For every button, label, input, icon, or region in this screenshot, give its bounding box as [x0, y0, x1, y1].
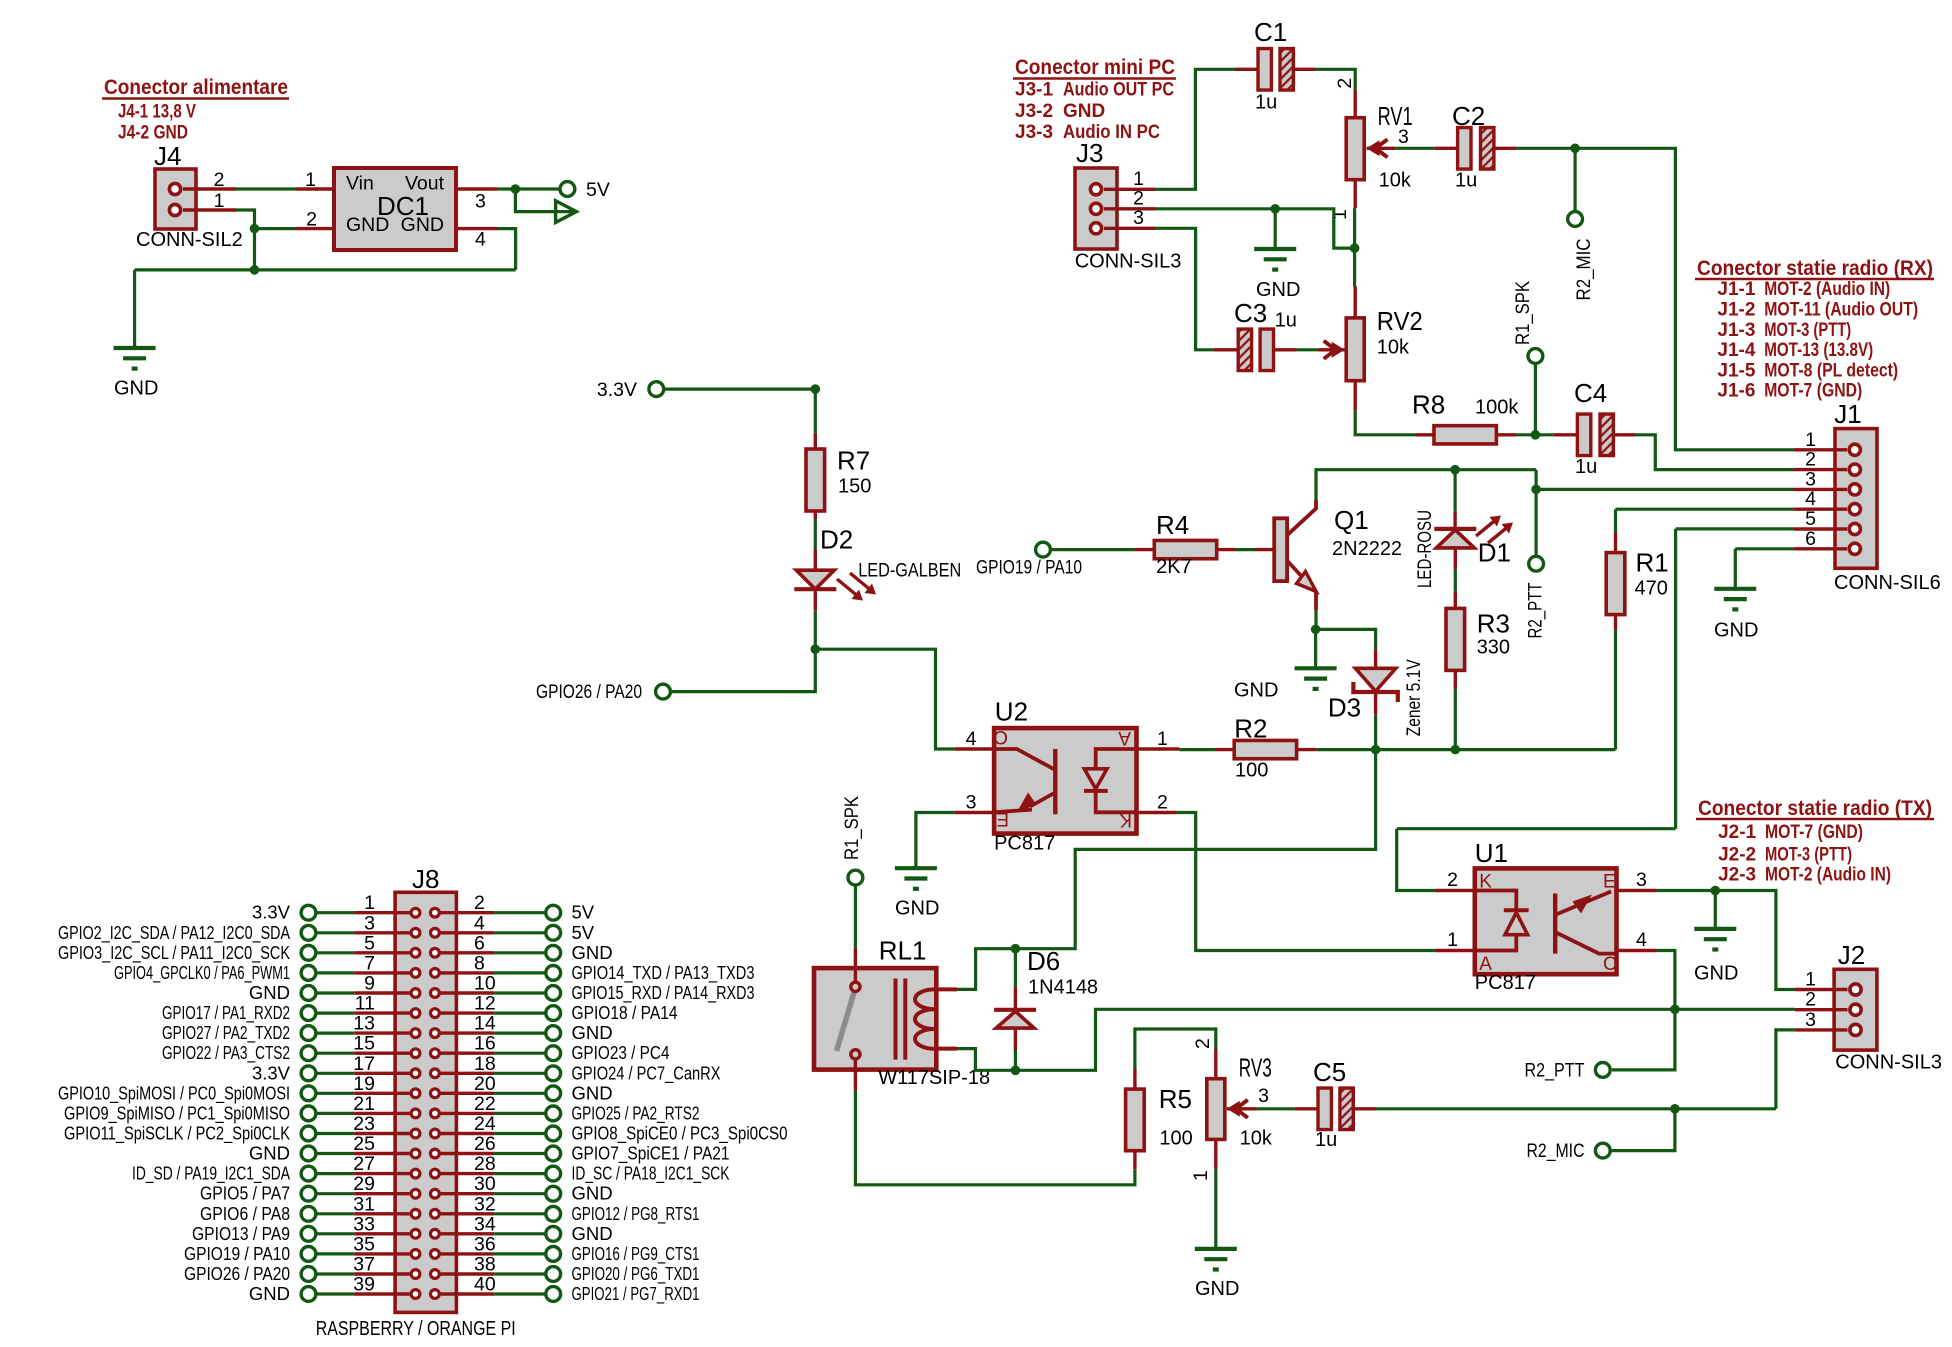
svg-text:RV1: RV1 [1378, 101, 1413, 131]
svg-text:1: 1 [1805, 969, 1816, 991]
svg-text:MOT-2 (Audio IN): MOT-2 (Audio IN) [1765, 865, 1891, 886]
svg-text:1: 1 [305, 169, 316, 191]
svg-text:ID_SC / PA18_I2C1_SCK: ID_SC / PA18_I2C1_SCK [572, 1163, 730, 1185]
wire R2 to R1 line [1317, 748, 1616, 751]
svg-text:3: 3 [1636, 869, 1647, 891]
svg-text:38: 38 [474, 1254, 496, 1276]
resistor R1 [1606, 533, 1669, 631]
svg-text:PC817: PC817 [994, 833, 1055, 855]
svg-text:1: 1 [214, 190, 225, 212]
svg-text:RV2: RV2 [1377, 306, 1423, 336]
svg-text:GND: GND [1714, 620, 1758, 642]
svg-text:J1: J1 [1834, 399, 1861, 429]
svg-text:MOT-7 (GND): MOT-7 (GND) [1765, 822, 1863, 843]
svg-text:J3-1: J3-1 [1015, 80, 1053, 101]
svg-text:K: K [1119, 809, 1132, 830]
svg-text:GND: GND [249, 1283, 290, 1304]
junction GND rail [250, 265, 260, 275]
svg-text:U1: U1 [1475, 838, 1508, 868]
svg-text:10k: 10k [1240, 1128, 1273, 1150]
wire J1.3 line [1536, 488, 1794, 491]
wire RL1 coil1 to D6 top [957, 949, 1015, 990]
header Conector alimentare [102, 75, 289, 143]
wire R1 bottom [1614, 630, 1617, 750]
svg-text:3: 3 [1258, 1085, 1269, 1107]
svg-text:5V: 5V [572, 902, 595, 923]
svg-text:5V: 5V [586, 179, 610, 201]
svg-text:J3: J3 [1076, 138, 1103, 168]
wire C3 to RV2.3 [1296, 348, 1317, 351]
svg-text:1u: 1u [1275, 310, 1297, 332]
junction D2 GPIO26 [811, 644, 821, 654]
terminal 5V [560, 179, 610, 201]
wire GPIO19 to R4 [1051, 548, 1135, 551]
potentiometer RV1 [1329, 78, 1413, 220]
svg-text:7: 7 [364, 952, 375, 974]
capacitor C3 [1213, 298, 1297, 371]
svg-text:3: 3 [475, 191, 486, 213]
svg-text:GPIO11_SpiSCLK / PC2_Spi0CLK: GPIO11_SpiSCLK / PC2_Spi0CLK [64, 1123, 291, 1145]
svg-text:C4: C4 [1574, 378, 1607, 408]
svg-text:18: 18 [474, 1053, 496, 1075]
svg-text:GND: GND [572, 1183, 613, 1204]
svg-text:C1: C1 [1254, 17, 1287, 47]
svg-text:2K7: 2K7 [1156, 556, 1192, 578]
wire D6 bottom [1014, 1050, 1017, 1070]
terminal R1_SPK top [1513, 281, 1543, 364]
wire 3.3V to R7 [664, 388, 815, 391]
resistor R8 [1412, 390, 1519, 444]
svg-text:150: 150 [838, 475, 871, 497]
header Conector statie radio TX [1696, 796, 1934, 886]
svg-text:R3: R3 [1477, 609, 1510, 639]
ground GND J1 [1714, 589, 1758, 642]
svg-text:2N2222: 2N2222 [1332, 538, 1402, 560]
svg-text:3.3V: 3.3V [252, 1062, 291, 1083]
svg-text:J1-3: J1-3 [1717, 320, 1755, 341]
header Conector mini PC [1013, 55, 1176, 143]
ground GND U2 [895, 868, 940, 919]
wire J4.1 down [236, 210, 255, 229]
svg-text:GPIO9_SpiMISO / PC1_Spi0MISO: GPIO9_SpiMISO / PC1_Spi0MISO [64, 1102, 290, 1124]
optocoupler U2 PC817 [955, 697, 1179, 855]
svg-text:34: 34 [474, 1213, 496, 1235]
wire R1_SPK to RL1 [854, 885, 857, 948]
junction PTT line [1670, 1005, 1680, 1015]
junction D6 top [1011, 944, 1021, 954]
svg-text:GND: GND [1234, 680, 1278, 702]
wire U1.4 to PTT net [1612, 951, 1675, 1070]
svg-text:GPIO8_SpiCE0 / PC3_Spi0CS0: GPIO8_SpiCE0 / PC3_Spi0CS0 [572, 1123, 788, 1145]
svg-text:100: 100 [1235, 760, 1268, 782]
potentiometer RV3 [1190, 1038, 1273, 1181]
svg-text:GND: GND [895, 898, 939, 920]
svg-text:Conector alimentare: Conector alimentare [104, 75, 288, 99]
svg-text:17: 17 [353, 1053, 375, 1075]
svg-text:GPIO20 / PG6_TXD1: GPIO20 / PG6_TXD1 [572, 1263, 700, 1285]
svg-text:U2: U2 [995, 697, 1028, 727]
svg-text:4: 4 [1636, 929, 1647, 951]
wire 5V arrow [515, 189, 574, 212]
wire J2.3 route [1776, 1030, 1795, 1109]
svg-text:C5: C5 [1313, 1057, 1346, 1087]
svg-text:GPIO26 / PA20: GPIO26 / PA20 [184, 1263, 290, 1284]
svg-text:J3-3: J3-3 [1015, 122, 1053, 143]
svg-text:27: 27 [353, 1153, 375, 1175]
svg-text:GND: GND [114, 378, 158, 400]
svg-text:GPIO17 / PA1_RXD2: GPIO17 / PA1_RXD2 [162, 1002, 290, 1024]
capacitor C5 [1295, 1057, 1376, 1151]
svg-text:1: 1 [364, 892, 375, 914]
svg-text:3: 3 [1805, 468, 1816, 490]
wire RV2.1 to R8 [1355, 410, 1415, 435]
svg-text:LED-ROSU: LED-ROSU [1415, 510, 1436, 588]
svg-text:GND: GND [249, 982, 290, 1003]
power arrow 5V [556, 201, 577, 223]
svg-text:GPIO6 / PA8: GPIO6 / PA8 [200, 1203, 290, 1224]
svg-text:28: 28 [474, 1153, 496, 1175]
wire J1.6 to GND [1735, 549, 1794, 588]
svg-text:6: 6 [474, 932, 485, 954]
wire J3.3 to C3 [1156, 228, 1213, 349]
svg-text:R2_PTT: R2_PTT [1525, 1061, 1585, 1082]
svg-text:Conector mini PC: Conector mini PC [1015, 55, 1175, 79]
wire C5 to J2.3 line [1376, 1107, 1776, 1110]
svg-text:D2: D2 [820, 525, 853, 555]
diode D6 1N4148 [994, 946, 1098, 1050]
svg-text:J2-1: J2-1 [1718, 822, 1756, 843]
svg-text:20: 20 [474, 1073, 496, 1095]
relay RL1 W117SIP-18 [814, 936, 990, 1091]
connector J8 RASPBERRY/ORANGE PI [58, 864, 788, 1340]
svg-text:32: 32 [474, 1193, 496, 1215]
wire D2 to junction [814, 611, 817, 650]
junction 5V [511, 184, 521, 194]
svg-text:GPIO21 / PG7_RXD1: GPIO21 / PG7_RXD1 [572, 1283, 700, 1305]
svg-text:10k: 10k [1377, 337, 1410, 359]
svg-text:14: 14 [474, 1013, 496, 1035]
svg-text:E: E [1603, 872, 1616, 893]
svg-text:GND: GND [1063, 101, 1105, 122]
svg-text:J1-5: J1-5 [1717, 360, 1755, 381]
svg-text:GPIO25 / PA2_RTS2: GPIO25 / PA2_RTS2 [572, 1102, 700, 1124]
svg-text:GPIO18 / PA14: GPIO18 / PA14 [572, 1002, 678, 1023]
svg-text:J4: J4 [154, 141, 181, 171]
wire to R2_MIC terminal [1573, 148, 1576, 211]
junction MIC line [1670, 1104, 1680, 1114]
svg-text:4: 4 [475, 229, 486, 251]
wire J3.1 to C1 [1156, 69, 1235, 189]
svg-text:CONN-SIL3: CONN-SIL3 [1835, 1052, 1942, 1074]
capacitor C4 [1554, 378, 1636, 478]
terminal R1_SPK bottom [842, 796, 863, 885]
ground GND J3 [1254, 249, 1300, 301]
wire emitter to GND [1314, 629, 1317, 668]
svg-text:R4: R4 [1156, 510, 1189, 540]
svg-text:Conector statie radio (TX): Conector statie radio (TX) [1698, 796, 1932, 820]
junction R2_PTT line [1531, 485, 1541, 495]
svg-text:RV3: RV3 [1239, 1053, 1272, 1083]
svg-text:GND: GND [1694, 963, 1738, 985]
wire R3 to R2 line [1454, 689, 1457, 749]
wire emitter to D3 [1316, 629, 1376, 649]
svg-text:5: 5 [364, 932, 375, 954]
wire RV3.1 to GND [1214, 1169, 1217, 1249]
svg-text:31: 31 [353, 1193, 375, 1215]
svg-text:RASPBERRY / ORANGE PI: RASPBERRY / ORANGE PI [316, 1318, 516, 1340]
svg-text:1: 1 [1190, 1170, 1212, 1181]
svg-text:40: 40 [474, 1274, 496, 1296]
svg-text:PC817: PC817 [1475, 972, 1536, 994]
svg-text:3: 3 [1133, 207, 1144, 229]
svg-text:30: 30 [474, 1173, 496, 1195]
svg-text:MOT-8 (PL detect): MOT-8 (PL detect) [1764, 360, 1898, 381]
svg-text:10: 10 [474, 973, 496, 995]
svg-text:2: 2 [214, 169, 225, 191]
svg-text:6: 6 [1805, 528, 1816, 550]
svg-text:GND: GND [572, 942, 613, 963]
svg-text:MOT-2 (Audio IN): MOT-2 (Audio IN) [1764, 279, 1890, 300]
wire D1 to R3 [1454, 569, 1457, 592]
svg-text:2: 2 [1192, 1038, 1214, 1049]
wire down to R7 [814, 389, 817, 433]
svg-text:35: 35 [353, 1233, 375, 1255]
svg-text:GPIO5 / PA7: GPIO5 / PA7 [200, 1183, 290, 1204]
svg-text:J8: J8 [412, 864, 439, 894]
wire to DC1.2 [255, 227, 297, 230]
svg-text:37: 37 [353, 1254, 375, 1276]
wire C1 to RV1.2 [1316, 69, 1355, 89]
svg-text:3: 3 [966, 792, 977, 814]
wire R4 to Q1 [1235, 548, 1255, 551]
svg-text:GPIO2_I2C_SDA / PA12_I2C0_SDA: GPIO2_I2C_SDA / PA12_I2C0_SDA [58, 922, 291, 944]
svg-text:GND: GND [1195, 1278, 1239, 1300]
svg-text:2: 2 [1447, 869, 1458, 891]
wire J1.5 line [1397, 529, 1794, 891]
svg-text:GPIO22 / PA3_CTS2: GPIO22 / PA3_CTS2 [162, 1042, 290, 1064]
svg-text:2: 2 [1334, 78, 1356, 89]
wire GND rail [135, 268, 516, 271]
svg-text:J1-2: J1-2 [1717, 300, 1755, 321]
svg-text:GPIO27 / PA2_TXD2: GPIO27 / PA2_TXD2 [162, 1022, 290, 1044]
svg-text:R1: R1 [1636, 548, 1669, 578]
svg-text:D1: D1 [1478, 538, 1511, 568]
svg-text:GPIO19 / PA10: GPIO19 / PA10 [184, 1243, 290, 1264]
wire R2 net to D6 net [1015, 750, 1375, 949]
svg-text:5: 5 [1805, 508, 1816, 530]
wire DC1.4 return [497, 229, 516, 270]
junction D6 bottom [1011, 1066, 1021, 1076]
wire RV3.3 to C5 [1257, 1107, 1295, 1110]
svg-text:GPIO7_SpiCE1 / PA21: GPIO7_SpiCE1 / PA21 [572, 1143, 730, 1165]
svg-text:Conector statie radio (RX): Conector statie radio (RX) [1697, 256, 1933, 280]
svg-text:3: 3 [364, 912, 375, 934]
svg-text:10k: 10k [1379, 169, 1412, 191]
resistor R3 [1446, 592, 1510, 690]
junction R2_MIC top [1570, 144, 1580, 154]
junction D1 top [1450, 465, 1460, 475]
svg-text:R1_SPK: R1_SPK [1513, 281, 1534, 345]
svg-text:4: 4 [1805, 488, 1816, 510]
svg-text:36: 36 [474, 1233, 496, 1255]
svg-text:DC1: DC1 [377, 191, 429, 221]
wire RV1.3 to C2 [1395, 147, 1435, 150]
terminal GPIO19 [976, 542, 1082, 578]
svg-text:C: C [1603, 954, 1617, 975]
diode D3 zener 5.1V [1328, 649, 1425, 736]
svg-text:23: 23 [353, 1113, 375, 1135]
svg-text:D3: D3 [1328, 693, 1361, 723]
diode D2 LED-GALBEN [794, 525, 961, 611]
transistor Q1 2N2222 [1255, 500, 1402, 610]
svg-text:GND: GND [572, 1022, 613, 1043]
svg-text:2: 2 [1805, 989, 1816, 1011]
junction at DC1 pin2 net [250, 224, 260, 234]
wire RL1 coil2 to D6 bottom [957, 1049, 1015, 1071]
connector J3 [1075, 138, 1182, 273]
svg-text:J2-2: J2-2 [1718, 845, 1756, 866]
svg-text:J1-4: J1-4 [1717, 340, 1755, 361]
junction U1.3 GND [1711, 886, 1721, 896]
svg-text:1u: 1u [1315, 1129, 1337, 1151]
wire R7 to D2 [814, 519, 817, 550]
svg-text:GPIO15_RXD / PA14_RXD3: GPIO15_RXD / PA14_RXD3 [572, 982, 755, 1004]
connector J1 [1794, 399, 1941, 594]
wire J3.2 rail [1156, 209, 1355, 248]
svg-text:MOT-3 (PTT): MOT-3 (PTT) [1764, 320, 1851, 341]
wire R8 to C4 [1516, 433, 1554, 436]
svg-text:MOT-3 (PTT): MOT-3 (PTT) [1765, 845, 1852, 866]
svg-text:J1-1: J1-1 [1717, 279, 1755, 300]
wire C4 to J1.2 [1636, 435, 1794, 470]
junction GND J3 [1270, 204, 1280, 214]
svg-text:1u: 1u [1255, 92, 1277, 114]
wire D3 to R2 line [1374, 714, 1377, 749]
svg-text:E: E [996, 808, 1009, 829]
svg-text:11: 11 [355, 993, 375, 1015]
svg-text:100: 100 [1159, 1128, 1192, 1150]
svg-text:2: 2 [306, 209, 317, 231]
svg-text:24: 24 [474, 1113, 496, 1135]
wire collector corner down [1534, 470, 1537, 556]
svg-text:22: 22 [474, 1093, 496, 1115]
svg-text:C2: C2 [1452, 101, 1485, 131]
svg-text:J3-2: J3-2 [1015, 101, 1053, 122]
ground GND RV3 [1195, 1249, 1240, 1300]
wire to R1_SPK terminal [1534, 364, 1537, 435]
junction D3 bottom [1371, 745, 1381, 755]
svg-text:1: 1 [1157, 728, 1168, 750]
svg-text:15: 15 [353, 1033, 375, 1055]
svg-text:GPIO16 / PG9_CTS1: GPIO16 / PG9_CTS1 [572, 1243, 700, 1265]
optocoupler U1 PC817 [1435, 838, 1657, 994]
svg-text:GPIO10_SpiMOSI / PC0_Spi0MOSI: GPIO10_SpiMOSI / PC0_Spi0MOSI [58, 1082, 290, 1104]
capacitor C2 [1435, 101, 1516, 191]
svg-text:GND: GND [572, 1082, 613, 1103]
wire Q1 collector [1316, 470, 1536, 500]
svg-text:J2-3: J2-3 [1718, 865, 1756, 886]
resistor R5 [1126, 1069, 1193, 1169]
svg-text:W117SIP-18: W117SIP-18 [878, 1067, 990, 1089]
svg-text:Audio OUT PC: Audio OUT PC [1063, 80, 1174, 101]
wire R2_MIC to line [1610, 1109, 1675, 1151]
wire to U2.4 [815, 649, 954, 749]
svg-text:100k: 100k [1475, 397, 1519, 419]
svg-text:3: 3 [1805, 1009, 1816, 1031]
connector J2 [1795, 940, 1942, 1074]
svg-text:RL1: RL1 [879, 936, 927, 966]
svg-text:4: 4 [474, 912, 485, 934]
svg-text:GPIO12 / PG8_RTS1: GPIO12 / PG8_RTS1 [572, 1203, 700, 1225]
svg-text:13: 13 [353, 1013, 375, 1035]
svg-text:ID_SD / PA19_I2C1_SDA: ID_SD / PA19_I2C1_SDA [132, 1163, 290, 1185]
svg-text:Vin: Vin [346, 173, 374, 195]
svg-text:GPIO13 / PA9: GPIO13 / PA9 [192, 1223, 290, 1244]
svg-text:1N4148: 1N4148 [1028, 977, 1098, 999]
svg-text:CONN-SIL2: CONN-SIL2 [136, 229, 243, 251]
ground GND Q1 [1234, 668, 1337, 701]
svg-text:29: 29 [353, 1173, 375, 1195]
terminal R2_MIC top [1568, 212, 1595, 301]
wire U2.2 to U1.1 [1176, 813, 1435, 951]
svg-text:2: 2 [1805, 449, 1816, 471]
svg-text:16: 16 [474, 1033, 496, 1055]
svg-text:3.3V: 3.3V [252, 902, 291, 923]
svg-text:1u: 1u [1455, 169, 1477, 191]
svg-text:C: C [994, 726, 1008, 747]
svg-text:GPIO26 / PA20: GPIO26 / PA20 [536, 682, 642, 703]
capacitor C1 [1235, 17, 1316, 114]
svg-text:R7: R7 [837, 446, 870, 476]
wire RL1 pin to R5 [855, 1090, 1135, 1184]
ground GND J4 [114, 348, 159, 400]
svg-text:R2: R2 [1234, 714, 1267, 744]
junction Q1 emitter [1311, 625, 1321, 635]
svg-text:470: 470 [1635, 578, 1668, 600]
svg-text:33: 33 [353, 1213, 375, 1235]
svg-text:LED-GALBEN: LED-GALBEN [858, 561, 961, 582]
svg-text:GPIO24 / PC7_CanRX: GPIO24 / PC7_CanRX [572, 1062, 721, 1084]
svg-text:GPIO19 / PA10: GPIO19 / PA10 [976, 558, 1082, 579]
svg-text:1: 1 [1447, 929, 1458, 951]
wire GPIO26 [671, 649, 816, 691]
ground GND U1 [1694, 929, 1738, 985]
connector J4 [136, 141, 243, 251]
svg-text:39: 39 [353, 1274, 375, 1296]
svg-text:R2_MIC: R2_MIC [1574, 239, 1595, 301]
terminal 3.3V [597, 379, 664, 401]
svg-text:CONN-SIL6: CONN-SIL6 [1834, 572, 1941, 594]
svg-text:J2: J2 [1838, 940, 1865, 970]
svg-text:GPIO23 / PC4: GPIO23 / PC4 [572, 1042, 670, 1063]
wire to GND J3 [1274, 209, 1277, 248]
resistor R2 [1215, 714, 1317, 782]
svg-text:GPIO14_TXD / PA13_TXD3: GPIO14_TXD / PA13_TXD3 [572, 962, 755, 984]
svg-text:R8: R8 [1412, 390, 1445, 420]
svg-text:26: 26 [474, 1133, 496, 1155]
wire U2.1 to R2 [1179, 748, 1215, 751]
wire RV1.1 to RV2.2 [1353, 208, 1356, 286]
svg-text:12: 12 [474, 993, 496, 1015]
wire U2.3 to GND [916, 813, 955, 869]
svg-text:R2_MIC: R2_MIC [1527, 1141, 1585, 1162]
svg-text:GND: GND [572, 1223, 613, 1244]
svg-text:2: 2 [1157, 792, 1168, 814]
terminal R2_PTT top [1526, 556, 1547, 638]
svg-text:1: 1 [1805, 429, 1816, 451]
terminal GPIO26 [536, 682, 670, 703]
wire R5 top to RV3.2 [1135, 1029, 1216, 1069]
